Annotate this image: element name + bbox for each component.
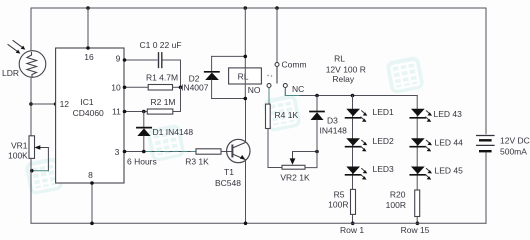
svg-text:D3: D3	[327, 116, 338, 126]
svg-text:IN4148: IN4148	[320, 126, 348, 136]
node R5 to bus	[351, 222, 355, 226]
node top-left junction to pin16	[86, 6, 90, 10]
svg-text:CD4060: CD4060	[73, 108, 104, 118]
svg-text:LED3: LED3	[373, 164, 395, 174]
LED1	[346, 109, 368, 122]
resistor R4	[266, 104, 271, 128]
node LDR/VR1/pin12 junction	[29, 102, 33, 106]
LED3	[346, 167, 368, 180]
svg-text:NO: NO	[248, 85, 261, 95]
svg-text:T1: T1	[224, 167, 234, 177]
wire bottom bus	[31, 222, 486, 224]
node D3 top	[315, 94, 319, 98]
LDR light arrows	[8, 41, 25, 54]
svg-text:Row 1: Row 1	[340, 225, 364, 235]
wire vertical link R1 to R2	[173, 87, 181, 111]
node pin3	[123, 150, 127, 154]
svg-text:500mA: 500mA	[500, 147, 527, 157]
transistor Q1 BC548	[227, 139, 250, 162]
wire NO to R4 (teal tinted)	[268, 88, 270, 105]
wire VR1 wiper to bottom (teal tinted)	[32, 170, 49, 172]
wire pin9 to C1	[124, 59, 157, 61]
svg-text:IC1: IC1	[80, 97, 94, 107]
resistor R20	[415, 190, 420, 217]
svg-text:LDR: LDR	[2, 68, 19, 78]
svg-text:LED1: LED1	[373, 107, 395, 117]
node pin12 at IC edge	[54, 102, 58, 106]
svg-text:R1 4.7M: R1 4.7M	[146, 73, 178, 83]
wire top bus	[31, 7, 486, 9]
wire R3 to base	[221, 151, 232, 153]
wire right bus lower	[485, 152, 487, 223]
resistor R3	[196, 149, 221, 154]
svg-text:D1 IN4148: D1 IN4148	[153, 127, 194, 137]
wire NC bus to LED chains	[317, 95, 417, 97]
potentiometer VR2	[282, 165, 305, 169]
wire coil bottom	[244, 84, 246, 99]
svg-text:R3 1K: R3 1K	[185, 157, 209, 167]
capacitor C1	[159, 53, 162, 68]
node LED1 chain top	[351, 94, 355, 98]
node D1 top junction	[142, 110, 146, 114]
resistor R5	[351, 189, 356, 214]
node VR2 wiper / D3	[315, 150, 319, 154]
wire watermark dashes on pin3 wire	[146, 151, 195, 153]
svg-text:12: 12	[60, 99, 70, 109]
potentiometer VR1	[29, 136, 35, 159]
wire NC down and right (teal corner)	[285, 88, 317, 96]
svg-text:R2 1M: R2 1M	[150, 97, 175, 107]
resistor R1	[148, 85, 172, 91]
wire D2 top to coil line	[212, 55, 246, 57]
svg-text:LED2: LED2	[373, 136, 395, 146]
node VR1 wiper junction	[30, 169, 34, 173]
wire left bus upper (top bus to LDR)	[30, 8, 32, 51]
wire Comm from top bus	[276, 8, 278, 63]
wire R4 bottom to VR2	[268, 129, 282, 168]
wire pin 12	[31, 103, 56, 105]
node pin8	[90, 181, 94, 185]
LED2	[346, 138, 368, 151]
svg-text:9: 9	[116, 54, 121, 64]
IC U1 CD4060 box	[56, 48, 124, 183]
wire coil through box	[244, 68, 246, 84]
node D2 top	[244, 55, 248, 59]
svg-text:NC: NC	[292, 84, 304, 94]
wire R1 right	[173, 86, 181, 88]
watermark	[24, 56, 425, 196]
svg-text:Relay: Relay	[332, 74, 354, 84]
VR2 wiper	[290, 152, 317, 165]
node R20 to bus	[416, 222, 420, 226]
svg-text:11: 11	[112, 107, 121, 117]
svg-text:LED 44: LED 44	[435, 138, 464, 148]
svg-text:Comm: Comm	[282, 60, 307, 70]
relay lever	[276, 67, 278, 84]
wire C1 right to vertical link	[163, 60, 181, 87]
node D2 bottom / collector	[244, 97, 248, 101]
battery B1	[477, 136, 494, 152]
contact NO	[267, 84, 271, 88]
contact Comm	[275, 63, 279, 67]
svg-text:IN4007: IN4007	[181, 83, 209, 93]
wire pin10 to R1	[124, 86, 148, 88]
node top junction to Comm	[275, 6, 279, 10]
node R1 right junction	[179, 86, 183, 90]
svg-text:16: 16	[84, 52, 94, 62]
diode D3	[305, 96, 324, 168]
svg-text:RL: RL	[238, 72, 249, 82]
wire pin11 to R2	[124, 111, 147, 113]
VR1 wiper arm	[34, 145, 48, 171]
node pin8 to bus	[90, 222, 94, 226]
svg-text:BC548: BC548	[215, 178, 241, 188]
diode D2 across coil	[205, 56, 219, 98]
wire right bus upper	[485, 8, 487, 134]
node D1 bottom junction	[142, 150, 146, 154]
LED44	[410, 138, 432, 151]
svg-text:R20: R20	[390, 190, 406, 200]
node top junction to relay coil	[244, 6, 248, 10]
node pin11	[123, 110, 127, 114]
wire VR1 bottom to bus	[30, 158, 32, 223]
svg-text:R5: R5	[334, 190, 345, 200]
LED43	[410, 109, 432, 122]
svg-text:LED 45: LED 45	[435, 166, 464, 176]
node emitter to bus	[244, 222, 248, 226]
svg-text:VR1: VR1	[11, 141, 28, 151]
wire relay coil feed from top	[244, 8, 246, 68]
svg-text:100K: 100K	[8, 151, 28, 161]
wire emitter to bus	[245, 160, 247, 224]
svg-text:100R: 100R	[386, 200, 406, 210]
svg-text:C1 0 22 uF: C1 0 22 uF	[139, 40, 181, 50]
node pin10	[123, 86, 127, 90]
lever motion dots	[267, 75, 269, 77]
resistor R2	[147, 109, 173, 114]
svg-text:RL: RL	[334, 54, 345, 64]
svg-text:10: 10	[111, 82, 121, 92]
wire D2 bottom to coil line	[212, 98, 246, 100]
node pin16	[86, 46, 90, 50]
svg-text:6 Hours: 6 Hours	[127, 157, 157, 167]
contact NC	[283, 84, 287, 88]
wire LED chain 2 top corner	[416, 96, 418, 224]
wire LED chain 1 top	[352, 96, 354, 224]
svg-text:3: 3	[115, 147, 120, 157]
LED45	[410, 167, 432, 180]
svg-text:LED 43: LED 43	[434, 109, 463, 119]
LDR photoresistor	[19, 51, 46, 78]
svg-text:12V DC: 12V DC	[500, 136, 530, 146]
svg-text:Row 15: Row 15	[401, 225, 430, 235]
svg-text:8: 8	[88, 170, 93, 180]
svg-text:100R: 100R	[328, 200, 348, 210]
svg-text:R4 1K: R4 1K	[275, 110, 299, 120]
wire LDR bottom to VR1	[30, 78, 32, 136]
relay coil RL box	[229, 68, 262, 84]
wire pin3 to R3	[124, 151, 196, 153]
svg-text:VR2 1K: VR2 1K	[280, 173, 310, 183]
diode D1	[137, 112, 151, 152]
wire pin8 to bottom bus	[91, 183, 93, 223]
wire collector to relay	[245, 99, 247, 143]
wire pin16 from top bus	[87, 8, 89, 48]
node pin9	[123, 58, 127, 62]
